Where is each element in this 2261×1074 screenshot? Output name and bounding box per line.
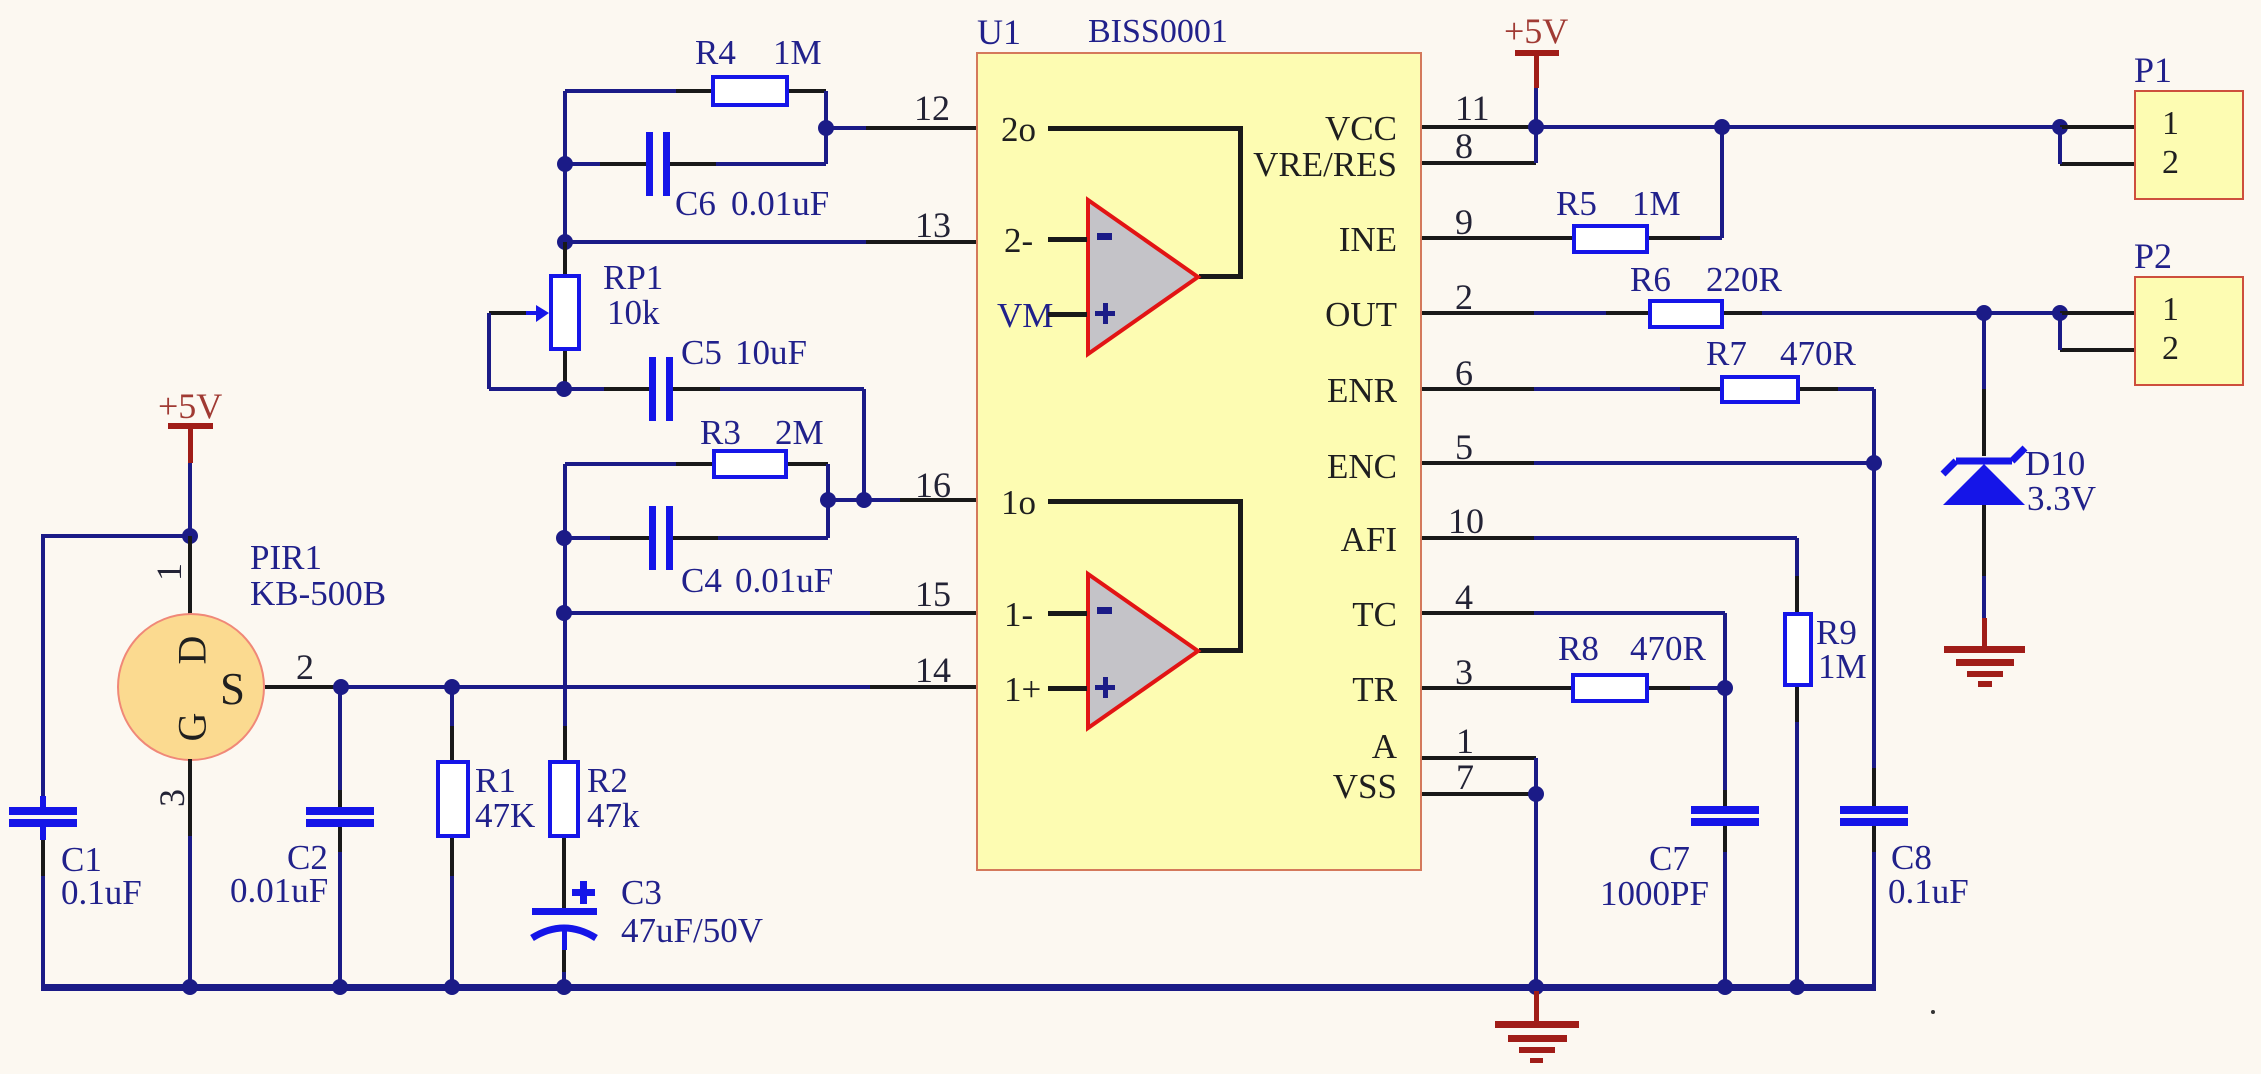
wire xyxy=(1872,826,1876,852)
pin 16 label xyxy=(915,467,951,503)
label R4 xyxy=(695,35,736,70)
resistor R6 xyxy=(1648,299,1724,329)
label 1o xyxy=(1001,485,1036,520)
label C3 xyxy=(621,875,662,910)
wire xyxy=(564,536,610,540)
wire xyxy=(338,790,342,807)
wire xyxy=(676,462,712,466)
wire xyxy=(265,685,335,689)
pin 9 label xyxy=(1455,204,1473,240)
wire xyxy=(1534,794,1538,989)
wire xyxy=(1982,389,1986,456)
wire xyxy=(1800,387,1838,391)
node xyxy=(444,979,460,995)
minus input op1 xyxy=(1097,607,1112,614)
wire xyxy=(1536,125,2060,129)
wire pin 11 xyxy=(1422,125,1529,129)
wire xyxy=(1606,311,1648,315)
wire xyxy=(1534,88,1538,127)
wire xyxy=(900,498,978,502)
label BISS0001 xyxy=(1088,15,1228,49)
pin 10 label xyxy=(1448,503,1484,539)
wire xyxy=(720,387,864,391)
PIR sensor PIR1 xyxy=(117,613,265,761)
ground (D10) xyxy=(1944,646,2025,653)
wire xyxy=(1723,688,1727,790)
wire xyxy=(1982,313,1986,389)
pin name VSS xyxy=(1333,769,1397,804)
wire xyxy=(562,972,566,989)
label 470R R8 xyxy=(1630,631,1706,666)
label R7 xyxy=(1706,336,1747,371)
wire xyxy=(1723,613,1727,687)
node xyxy=(556,979,572,995)
label R9 xyxy=(1816,615,1857,650)
wire xyxy=(1534,758,1538,794)
label KB-500B xyxy=(250,576,386,611)
wire xyxy=(1238,501,1243,650)
wire xyxy=(450,876,454,989)
wire xyxy=(450,687,454,726)
wire pin 3 xyxy=(1422,686,1571,690)
capacitor C2 xyxy=(306,807,374,815)
label 10k xyxy=(607,295,660,330)
wire xyxy=(563,242,567,274)
label PIR1 xyxy=(250,540,322,575)
node xyxy=(332,979,348,995)
label VM xyxy=(997,298,1053,333)
node xyxy=(1976,305,1992,321)
wiper arrow xyxy=(489,311,528,315)
P2 pin 2 label xyxy=(2162,332,2179,366)
wire xyxy=(1048,611,1087,616)
node xyxy=(1931,1010,1935,1014)
label 0.01uF C6 xyxy=(731,186,829,221)
wire pin 8 xyxy=(1422,161,1536,165)
wire xyxy=(41,876,45,989)
op-amp 2 xyxy=(1083,195,1205,359)
label R6 xyxy=(1630,262,1671,297)
op-amp 1 xyxy=(1083,569,1205,733)
capacitor C7 xyxy=(1691,806,1759,814)
label D10 xyxy=(2025,446,2085,481)
wire xyxy=(1048,686,1087,691)
label 1M R5 xyxy=(1632,186,1681,221)
wire xyxy=(1534,536,1797,540)
label 2- xyxy=(1004,223,1033,258)
power +5V (right) xyxy=(1504,13,1568,49)
wire xyxy=(563,726,567,760)
wire xyxy=(1534,387,1680,391)
label 1- xyxy=(1004,597,1033,632)
wire xyxy=(1724,311,1762,315)
pin name OUT xyxy=(1325,297,1397,332)
wire xyxy=(1238,128,1243,276)
wire xyxy=(862,389,866,500)
wire xyxy=(489,387,564,391)
wire xyxy=(2058,313,2062,350)
node xyxy=(444,679,460,695)
pin name A xyxy=(1372,729,1397,764)
P1 pin 2 label xyxy=(2162,146,2179,180)
wire xyxy=(1838,387,1874,391)
resistor R9 xyxy=(1783,612,1813,687)
pin 5 label xyxy=(1455,429,1473,465)
wire xyxy=(565,462,676,466)
wire xyxy=(1649,686,1690,690)
wire xyxy=(188,759,192,836)
wire 1o internal xyxy=(1048,499,1243,504)
capacitor C8 xyxy=(1840,806,1908,814)
resistor R8 xyxy=(1571,673,1649,703)
wire xyxy=(826,126,866,130)
wire xyxy=(718,536,828,540)
wire xyxy=(1534,311,1606,315)
wire xyxy=(1048,312,1087,317)
node xyxy=(333,679,349,695)
wire xyxy=(1982,576,1986,618)
ground (main) xyxy=(1534,991,1539,1021)
pin name VRE/RES xyxy=(1253,147,1397,182)
wire xyxy=(1534,611,1725,615)
wire pin 1 xyxy=(1422,756,1536,760)
zener diode D10 xyxy=(1930,440,2034,510)
label RP1 xyxy=(603,260,663,295)
pin name ENC xyxy=(1327,449,1397,484)
pin 6 label xyxy=(1455,355,1473,391)
pin 13 label xyxy=(915,207,951,243)
wire xyxy=(610,536,649,540)
node xyxy=(1714,119,1730,135)
minus input op2 xyxy=(1097,233,1112,240)
wire xyxy=(1872,768,1876,806)
label C4 xyxy=(681,563,722,598)
wire xyxy=(2060,162,2134,166)
wire xyxy=(1680,387,1720,391)
wire ground bus xyxy=(41,984,1876,991)
wire pin 6 xyxy=(1422,387,1534,391)
wire xyxy=(2060,125,2134,129)
pin name VCC xyxy=(1325,111,1397,146)
wire xyxy=(1982,505,1986,576)
wire xyxy=(1649,236,1700,240)
label C5 xyxy=(681,335,722,370)
node xyxy=(182,528,198,544)
wire xyxy=(1795,538,1799,576)
pin 2 label xyxy=(296,649,314,685)
pin 2 label xyxy=(1455,279,1473,315)
wire xyxy=(1534,461,1874,465)
wire pin 10 xyxy=(1422,536,1534,540)
pin 1 label xyxy=(151,563,187,581)
wire xyxy=(188,463,192,536)
node xyxy=(556,605,572,621)
wire xyxy=(562,838,566,908)
label 220R xyxy=(1706,262,1782,297)
label U1 xyxy=(977,14,1021,50)
wire xyxy=(866,240,978,244)
pin 4 label xyxy=(1455,579,1473,615)
pin 7 label xyxy=(1456,759,1474,795)
wire xyxy=(1199,274,1243,279)
wire xyxy=(1048,237,1087,242)
wire 2o internal xyxy=(1048,126,1243,131)
wire xyxy=(2058,127,2062,164)
wire xyxy=(870,685,978,689)
label R8 xyxy=(1558,631,1599,666)
wire xyxy=(828,498,900,502)
label 47K xyxy=(475,798,535,833)
capacitor C3 xyxy=(572,889,595,896)
wire xyxy=(338,827,342,852)
wire xyxy=(676,89,711,93)
pin 14 label xyxy=(915,652,951,688)
wire pin 5 xyxy=(1422,461,1534,465)
resistor R1 xyxy=(436,760,470,838)
pin 8 label xyxy=(1455,128,1473,164)
wire xyxy=(565,89,676,93)
resistor R2 xyxy=(548,760,580,838)
node xyxy=(2052,305,2068,321)
power +5V (left) xyxy=(158,388,222,424)
node xyxy=(1528,786,1544,802)
wire xyxy=(188,836,192,989)
wire xyxy=(1534,127,1538,163)
wire xyxy=(600,162,646,166)
pin name TR xyxy=(1352,672,1397,707)
wire xyxy=(487,313,491,389)
wire xyxy=(450,726,454,760)
wire xyxy=(1795,722,1799,989)
node xyxy=(557,234,573,250)
wire xyxy=(1723,826,1727,852)
wire xyxy=(41,840,45,876)
wire xyxy=(673,536,718,540)
wire xyxy=(824,128,828,164)
wire xyxy=(1795,687,1799,722)
label P1 xyxy=(2134,52,2172,88)
pin name ENR xyxy=(1327,373,1397,408)
pin 11 label xyxy=(1455,90,1490,126)
wire xyxy=(1762,311,2060,315)
capacitor C1 xyxy=(40,796,46,808)
wire xyxy=(1720,127,1724,238)
wire xyxy=(788,462,828,466)
resistor R3 xyxy=(712,449,788,479)
node xyxy=(556,381,572,397)
pin 1 label xyxy=(1456,723,1474,759)
wire xyxy=(870,611,978,615)
label R2 xyxy=(587,763,628,798)
wire xyxy=(826,464,830,538)
wire pin 7 xyxy=(1422,792,1536,796)
wire xyxy=(2060,348,2134,352)
node xyxy=(1789,979,1805,995)
label C8 xyxy=(1891,840,1932,875)
node xyxy=(1528,119,1544,135)
label C7 xyxy=(1649,841,1690,876)
label 1M R9 xyxy=(1818,649,1867,684)
node xyxy=(556,530,572,546)
node xyxy=(856,492,872,508)
pin name AFI xyxy=(1341,522,1397,557)
wire xyxy=(824,91,828,128)
wire xyxy=(789,89,826,93)
wire xyxy=(866,126,978,130)
wire xyxy=(1872,852,1876,989)
plus input op1 xyxy=(1095,685,1115,690)
pin 3 label xyxy=(154,789,190,807)
label R5 xyxy=(1556,186,1597,221)
label 47k xyxy=(587,798,640,833)
capacitor C4 xyxy=(649,506,656,570)
label C2 xyxy=(287,840,328,875)
label 0.01uF C4 xyxy=(735,563,833,598)
P2 pin 1 label xyxy=(2162,293,2179,327)
wire xyxy=(716,162,826,166)
label 3.3V xyxy=(2027,481,2096,516)
wire xyxy=(338,687,342,790)
wire xyxy=(563,613,567,726)
wire xyxy=(565,162,600,166)
pin 3 label xyxy=(1455,654,1473,690)
label 0.1uF xyxy=(61,875,142,910)
wire xyxy=(1723,852,1727,989)
wire xyxy=(673,387,720,391)
label 2o xyxy=(1001,112,1036,147)
wire xyxy=(563,351,567,389)
wire xyxy=(1723,790,1727,806)
wire xyxy=(338,852,342,989)
pin name INE xyxy=(1339,222,1397,257)
wire xyxy=(670,162,716,166)
resistor R5 xyxy=(1572,224,1649,254)
plus input op2 xyxy=(1095,311,1115,316)
wire xyxy=(564,611,870,615)
wire xyxy=(450,838,454,876)
resistor R7 xyxy=(1720,375,1800,404)
wire xyxy=(341,685,870,689)
wire xyxy=(1690,686,1725,690)
wire xyxy=(564,387,604,391)
pin 15 label xyxy=(915,576,951,612)
capacitor C6 xyxy=(646,132,653,196)
node xyxy=(818,120,834,136)
wire xyxy=(1795,576,1799,612)
node xyxy=(182,979,198,995)
wire xyxy=(563,91,567,242)
wire pin 9 xyxy=(1422,236,1572,240)
label P2 xyxy=(2134,238,2172,274)
wire xyxy=(565,240,866,244)
label 10uF xyxy=(735,335,807,370)
wire xyxy=(562,950,566,972)
node xyxy=(1717,680,1733,696)
label 0.1uF C8 xyxy=(1888,874,1969,909)
wire xyxy=(1700,236,1722,240)
wire xyxy=(188,536,192,616)
label 1M xyxy=(773,35,822,70)
wire xyxy=(604,387,649,391)
node xyxy=(2052,119,2068,135)
capacitor C5 xyxy=(649,357,656,421)
connector P1 xyxy=(2134,90,2244,200)
connector P2 xyxy=(2134,276,2244,386)
pin 12 label xyxy=(914,90,950,126)
node xyxy=(820,492,836,508)
wire xyxy=(41,534,190,538)
label 1+ xyxy=(1004,672,1041,707)
P1 pin 1 label xyxy=(2162,107,2179,141)
wire xyxy=(563,464,567,613)
potentiometer RP1 xyxy=(549,274,581,351)
wire xyxy=(1199,648,1243,653)
IC U1 BISS0001 body xyxy=(976,52,1422,871)
wire pin 4 xyxy=(1422,611,1534,615)
label R3 xyxy=(700,415,741,450)
wire xyxy=(41,536,45,796)
wire pin 2 xyxy=(1422,311,1534,315)
label 2M xyxy=(775,415,824,450)
node xyxy=(1528,979,1544,995)
wire xyxy=(1872,389,1876,463)
pin name TC xyxy=(1352,597,1397,632)
node xyxy=(1866,455,1882,471)
label 0.01uF xyxy=(230,873,328,908)
wire xyxy=(2060,311,2134,315)
label C6 xyxy=(675,186,716,221)
label 1000PF xyxy=(1600,876,1709,911)
label R1 xyxy=(475,763,516,798)
label 47uF/50V xyxy=(621,913,763,948)
label C1 xyxy=(61,842,102,877)
wire xyxy=(1872,463,1876,768)
node xyxy=(557,156,573,172)
label 470R R7 xyxy=(1780,336,1856,371)
node xyxy=(1717,979,1733,995)
resistor R4 xyxy=(711,75,789,107)
wire xyxy=(1982,618,1987,646)
